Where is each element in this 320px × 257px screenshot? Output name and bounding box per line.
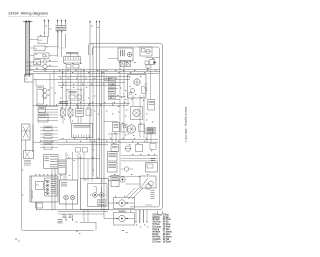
svg-text:Exterior lighting – 2001 Part: Exterior lighting – 2001 Part 1 — [184, 107, 188, 143]
svg-text:E2: E2 — [40, 40, 42, 42]
svg-text:E1: E1 — [37, 184, 39, 186]
svg-text:a: a — [37, 206, 38, 208]
svg-text:18 Earth: 18 Earth — [163, 240, 172, 243]
svg-text:E4: E4 — [76, 222, 78, 224]
svg-text:LHD/RHD: LHD/RHD — [32, 190, 34, 199]
svg-text:22 Conn: 22 Conn — [152, 241, 161, 243]
svg-text:12434 Wiring diagrams: 12434 Wiring diagrams — [8, 11, 48, 15]
svg-text:51: 51 — [35, 48, 37, 50]
svg-text:22: 22 — [26, 78, 28, 80]
